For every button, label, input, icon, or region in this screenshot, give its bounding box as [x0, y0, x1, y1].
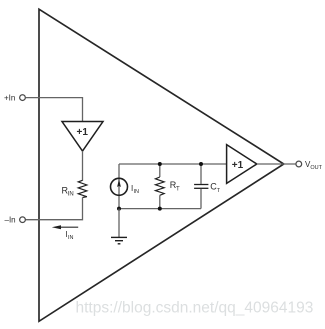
junction dot top rail at CT [199, 162, 203, 166]
junction dot bottom rail at RT [158, 207, 162, 211]
svg-text:+1: +1 [232, 160, 244, 171]
svg-text:+In: +In [4, 93, 15, 102]
junction dot bottom rail at source [117, 207, 121, 211]
wire top rail to resistor RT [159, 164, 161, 177]
svg-text:–In: –In [5, 216, 16, 225]
top rail wire [119, 163, 227, 165]
current arrow IIN under -In wire [60, 226, 78, 228]
svg-text:IN: IN [68, 192, 74, 198]
wire current source to top rail [118, 164, 120, 209]
wire buffer U1 output to resistor RIN [82, 151, 84, 181]
current source arrow [117, 179, 121, 187]
svg-text:+1: +1 [77, 127, 89, 138]
wire from +In to buffer U1 [25, 98, 82, 122]
current source I1 [111, 178, 128, 195]
op-amp outline triangle [39, 9, 284, 321]
node VOUT terminal [296, 161, 302, 167]
ground [118, 209, 120, 237]
bottom rail wire [119, 208, 201, 210]
wire buffer U2 output to VOUT [257, 163, 296, 165]
svg-text:T: T [176, 186, 180, 192]
wire top rail to capacitor CT [200, 164, 202, 184]
svg-text:https://blog.csdn.net/qq_40964: https://blog.csdn.net/qq_40964193 [76, 299, 314, 316]
resistor RT [155, 177, 164, 195]
op-amp U2 buffer +1 [227, 145, 257, 184]
svg-text:IN: IN [68, 235, 74, 241]
wire resistor RIN to -In rail [25, 198, 82, 220]
node +In terminal [20, 95, 26, 101]
svg-text:IN: IN [134, 189, 140, 195]
junction dot top rail at RT [158, 162, 162, 166]
node -In terminal [20, 217, 26, 223]
wire capacitor CT to bottom rail [200, 189, 202, 209]
capacitor CT [194, 184, 208, 186]
wire resistor RT to bottom rail [159, 195, 161, 208]
svg-text:OUT: OUT [310, 165, 322, 171]
resistor RIN [78, 180, 87, 197]
op-amp U1 buffer +1 [62, 122, 103, 152]
